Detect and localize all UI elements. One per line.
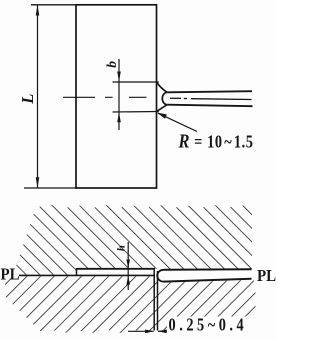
cavity plate outline [76, 5, 157, 188]
parting line left [19, 274, 155, 276]
label PL right [257, 267, 276, 285]
white backing for 0.25~0.4 text [167, 317, 246, 334]
extension line b bottom [113, 111, 159, 114]
svg-text:h: h [115, 245, 127, 251]
runner top edge (section) [164, 268, 252, 271]
dimension line L [36, 5, 40, 188]
svg-text:R = 10~1.5: R = 10~1.5 [178, 130, 254, 152]
label R = 10~1.5 [178, 130, 254, 152]
runner top edge [167, 91, 252, 92]
label PL left [1, 266, 20, 284]
svg-text:L: L [18, 94, 37, 105]
extension line b top [113, 81, 159, 83]
runner rounded end cap [162, 92, 167, 104]
leader arrow for R [157, 113, 197, 132]
svg-text:PL: PL [257, 267, 276, 285]
upper mold block hatching [0, 195, 276, 285]
label 0.25~0.4 [169, 316, 248, 335]
gate channel left step [76, 268, 78, 276]
runner centerline (dash-dot) [170, 98, 252, 99]
runner end cap (section) [157, 270, 163, 282]
gate flare upper [157, 82, 167, 92]
runner bottom edge (section) [164, 279, 252, 282]
svg-text:0.25~0.4: 0.25~0.4 [169, 316, 248, 335]
top extension line for L [31, 4, 76, 6]
runner bottom edge [167, 105, 252, 107]
gate channel ceiling [77, 268, 156, 270]
dimension line b with outside arrows [117, 59, 121, 130]
lower mold block hatching [0, 270, 276, 340]
dimension h [126, 242, 130, 290]
dimension 0.25~0.4 [128, 330, 170, 334]
extension line left of land [153, 269, 155, 331]
centerline of gate (chain line, left part) [63, 96, 147, 98]
bottom extension line for L [24, 187, 76, 189]
gate flare lower [157, 105, 167, 112]
svg-text:b: b [104, 61, 119, 68]
svg-text:PL: PL [1, 266, 20, 284]
extension line right of land [157, 271, 159, 331]
